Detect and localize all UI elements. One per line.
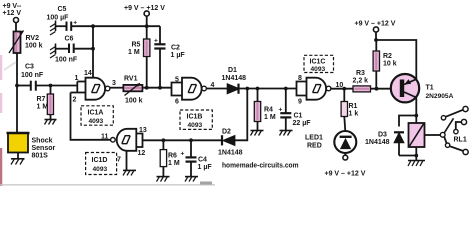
label R6 1M <box>168 153 180 168</box>
node junction rail/C5 <box>91 24 95 28</box>
label C3 100nF <box>21 64 44 80</box>
diode D3 <box>394 132 404 155</box>
svg-text:T1: T1 <box>426 85 434 92</box>
svg-text:1: 1 <box>75 75 79 82</box>
node junction R4 <box>256 87 260 91</box>
resistor R2 <box>373 40 379 89</box>
label box IC1D 4093 <box>86 153 117 175</box>
ground left of C5 <box>50 21 56 36</box>
svg-text:R6: R6 <box>168 153 177 160</box>
label R3 2,2k <box>353 70 369 85</box>
svg-text:D3: D3 <box>378 132 387 139</box>
resistor R7 <box>47 86 53 120</box>
capacitor C5 <box>67 22 72 31</box>
node junction C1 <box>284 87 288 91</box>
node +V terminal top-left <box>14 18 19 32</box>
relay terminal bottom <box>463 149 468 154</box>
svg-text:2: 2 <box>73 97 77 104</box>
svg-text:12: 12 <box>138 150 146 157</box>
capacitor C6 <box>69 44 74 54</box>
wire coil to contacts <box>425 134 441 136</box>
svg-text:8: 8 <box>298 75 302 82</box>
svg-text:R2: R2 <box>383 53 392 60</box>
node junction R2 <box>375 87 379 91</box>
pin bracket IC1A inputs 1,2 <box>71 82 86 93</box>
svg-text:100 nF: 100 nF <box>21 72 44 79</box>
svg-text:1N4148: 1N4148 <box>222 75 247 82</box>
svg-text:1 µF: 1 µF <box>171 52 186 59</box>
label box IC1A 4093 <box>81 106 113 125</box>
wire IC1D gnd pin <box>126 151 128 171</box>
wire IC1B out to D1 <box>206 88 227 90</box>
svg-text:RL1: RL1 <box>454 137 467 144</box>
svg-text:100 k: 100 k <box>25 43 43 50</box>
svg-text:R7: R7 <box>37 96 46 103</box>
potentiometer RV1 <box>123 83 142 95</box>
svg-text:R4: R4 <box>264 107 273 114</box>
op-amp gate IC1B <box>182 78 206 100</box>
label Shock Sensor 801S <box>32 138 56 160</box>
label D3 1N4148 <box>365 132 390 147</box>
ground left of C6 <box>50 44 56 59</box>
node terminal top-right <box>373 27 378 40</box>
svg-text:1 M: 1 M <box>168 160 180 167</box>
node junction RV2/C3 <box>15 84 19 88</box>
op-amp gate IC1D flipped <box>111 129 137 151</box>
label R4 1M <box>264 107 276 122</box>
svg-text:+9 V – +12 V: +9 V – +12 V <box>124 5 165 12</box>
svg-text:C4: C4 <box>198 157 207 164</box>
label RL1 <box>454 137 467 144</box>
svg-text:2N2905A: 2N2905A <box>426 93 454 100</box>
svg-text:homemade-circuits.com: homemade-circuits.com <box>222 160 299 169</box>
svg-text:1N4148: 1N4148 <box>218 150 243 157</box>
svg-text:D1: D1 <box>228 67 237 74</box>
node junction C2 bottom <box>158 86 162 90</box>
label T1 2N2905A <box>426 85 454 101</box>
wire C5 to rail <box>71 25 93 27</box>
node junction C6/pin14 riser <box>91 47 95 51</box>
label LED1 RED <box>305 135 323 150</box>
relay contact NO circle <box>454 129 458 133</box>
label box IC1C 4093 <box>304 55 334 72</box>
svg-text:10 k: 10 k <box>383 61 397 68</box>
wire supply rail <box>93 25 160 27</box>
relay terminal middle <box>461 119 466 124</box>
svg-text:R1: R1 <box>349 103 358 110</box>
svg-text:1N4148: 1N4148 <box>365 139 390 146</box>
node junction relay bottom <box>414 154 418 158</box>
wire middle terminal to NO circle <box>456 122 462 129</box>
relay arm <box>444 118 453 133</box>
ground under C1 <box>280 131 293 136</box>
svg-text:C5: C5 <box>58 6 67 13</box>
wire IC1C out to base <box>331 88 400 90</box>
ground under R4 <box>251 131 264 136</box>
ground under R7 <box>45 120 57 125</box>
wire D3 bottom to relay bottom <box>399 155 416 157</box>
svg-text:C3: C3 <box>25 64 34 71</box>
label C2 1uF <box>154 38 185 60</box>
wire collector down <box>415 98 417 124</box>
label +9V +12V bottom <box>325 171 366 178</box>
svg-text:IC1D: IC1D <box>92 157 108 164</box>
wire IC1A output to RV1 <box>110 87 124 89</box>
svg-text:+: + <box>279 107 283 114</box>
svg-text:2,2 k: 2,2 k <box>353 78 369 85</box>
svg-text:C1: C1 <box>294 113 303 120</box>
label R2 10k <box>383 53 397 68</box>
relay contact common circle <box>445 143 449 147</box>
svg-text:1 M: 1 M <box>128 49 140 56</box>
resistor R3 <box>353 86 371 92</box>
node terminal under LED1 <box>343 153 348 160</box>
node junction R6 <box>162 138 166 142</box>
svg-text:R5: R5 <box>132 42 141 49</box>
node junction D2 riser <box>245 87 249 91</box>
svg-text:100 k: 100 k <box>125 98 143 105</box>
label R7 1M <box>37 96 49 111</box>
wire RV1 to IC1B <box>142 87 171 89</box>
svg-text:13: 13 <box>139 127 147 134</box>
node junction C4 <box>189 138 193 142</box>
wire NC to terminal <box>446 110 464 117</box>
svg-text:RV1: RV1 <box>124 76 138 83</box>
wire pivot to common circle <box>444 137 446 143</box>
wire ground to C6 <box>56 48 70 50</box>
label +9V-+12V top-middle <box>124 5 165 12</box>
svg-text:4093: 4093 <box>93 166 108 173</box>
wire feedback IC1D out to IC1A pin2 <box>71 93 111 140</box>
capacitor C4 <box>186 140 197 176</box>
svg-text:Shock: Shock <box>32 138 53 145</box>
pin labels IC1C <box>298 75 343 106</box>
potentiometer RV2 <box>9 31 24 54</box>
svg-text:4093: 4093 <box>188 122 203 129</box>
svg-text:+: + <box>181 151 185 158</box>
op-amp gate IC1A <box>86 78 110 100</box>
node junction R1 <box>342 87 346 91</box>
svg-text:RED: RED <box>307 143 322 150</box>
diode D2 <box>222 135 235 145</box>
label R1 1k <box>349 103 359 118</box>
label D1 1N4148 <box>222 67 247 82</box>
pin labels IC1B <box>175 77 215 106</box>
svg-text:100 µF: 100 µF <box>47 15 70 22</box>
svg-text:4093: 4093 <box>311 66 326 73</box>
node junction R7 <box>49 84 53 88</box>
node junction top-right <box>374 38 378 42</box>
svg-text:1 M: 1 M <box>37 104 49 111</box>
label +9V +12V top-right <box>355 21 396 28</box>
svg-text:9: 9 <box>298 99 302 106</box>
svg-text:+: + <box>154 38 158 45</box>
node junction rail/R5 <box>145 24 149 28</box>
wire D2 to riser <box>235 89 248 141</box>
svg-text:1 µF: 1 µF <box>198 164 213 171</box>
label RV1 100k <box>124 76 143 105</box>
svg-text:RV2: RV2 <box>26 35 40 42</box>
svg-text:R3: R3 <box>356 70 365 77</box>
label homemade-circuits.com <box>222 160 299 169</box>
capacitor C1 <box>280 89 291 131</box>
svg-text:IC1A: IC1A <box>88 110 104 117</box>
wire C3 to IC1A input <box>36 85 78 87</box>
svg-text:C6: C6 <box>65 36 74 43</box>
svg-text:IC1B: IC1B <box>187 114 203 121</box>
svg-text:C2: C2 <box>171 45 180 52</box>
wire to D3 top <box>399 116 416 127</box>
ground under relay <box>408 161 425 167</box>
pin bracket IC1C inputs 8,9 <box>297 82 307 96</box>
svg-text:14: 14 <box>84 70 92 77</box>
resistor R4 <box>254 89 260 131</box>
svg-text:+9 V – +12 V: +9 V – +12 V <box>325 171 366 178</box>
shock sensor 801S <box>7 133 30 159</box>
pin bracket IC1D inputs 13,12 <box>136 134 142 148</box>
resistor R6 <box>160 140 166 176</box>
pin 14 label <box>73 70 117 104</box>
node junction collector/D3 <box>414 114 418 118</box>
label C4 1uF <box>181 151 213 172</box>
wire C6 to riser <box>74 48 93 50</box>
svg-text:LED1: LED1 <box>305 135 323 142</box>
wire node to C3 <box>17 85 30 87</box>
svg-text:1 M: 1 M <box>264 114 276 121</box>
svg-text:+12 V: +12 V <box>3 10 22 17</box>
label +9V +12V top-left <box>3 3 23 17</box>
ground under R6 <box>157 177 170 182</box>
ground under sensor <box>11 159 25 165</box>
resistor R1 <box>341 89 347 131</box>
svg-text:6: 6 <box>175 99 179 106</box>
ground under C4 <box>185 177 198 182</box>
diode D1 <box>228 84 239 94</box>
wire common to bottom terminal <box>450 146 464 151</box>
svg-text:1 k: 1 k <box>349 111 359 118</box>
label C6 100nF <box>55 36 78 64</box>
wire pin14 riser <box>92 26 94 77</box>
label C5 100uF <box>47 6 78 27</box>
wire ground to C5 <box>56 25 67 27</box>
resistor R5 <box>144 26 150 87</box>
transistor T1 <box>391 74 419 102</box>
pin bracket IC1B inputs 5,6 <box>172 83 183 96</box>
capacitor C3 <box>31 81 36 91</box>
label C1 22uF <box>279 107 312 128</box>
svg-text:7: 7 <box>117 157 121 164</box>
LED1 <box>334 131 356 153</box>
ground under IC1D <box>123 170 136 175</box>
relay contact pivot <box>440 132 445 137</box>
svg-text:22 µF: 22 µF <box>293 120 312 127</box>
wire emitter rail <box>376 40 416 80</box>
relay coil RL1 <box>409 123 425 161</box>
relay contact NC circle <box>441 116 445 120</box>
capacitor C2 <box>154 26 165 88</box>
svg-text:5: 5 <box>175 77 179 84</box>
svg-text:IC1C: IC1C <box>310 59 326 66</box>
svg-text:3: 3 <box>112 80 116 87</box>
op-amp gate IC1C <box>307 78 331 100</box>
svg-text:D2: D2 <box>222 129 231 136</box>
label box IC1B 4093 <box>180 110 212 129</box>
svg-text:Sensor: Sensor <box>32 145 56 152</box>
label R5 1M <box>128 42 141 57</box>
svg-text:+9 V--: +9 V-- <box>3 3 23 10</box>
wire D1 to IC1C <box>239 88 297 90</box>
label RV2 100k <box>25 35 43 50</box>
node terminal top-middle <box>144 11 149 26</box>
svg-text:4093: 4093 <box>89 118 104 125</box>
wire IC1D inputs to R6 node <box>143 139 222 141</box>
label D2 1N4148 <box>218 129 243 157</box>
wire RV2 to sensor <box>16 53 18 133</box>
relay terminal top <box>463 106 468 111</box>
node junction R5 bottom <box>145 86 149 90</box>
pin labels IC1D <box>101 127 147 164</box>
svg-text:801S: 801S <box>32 153 49 160</box>
svg-text:100 nF: 100 nF <box>55 57 78 64</box>
